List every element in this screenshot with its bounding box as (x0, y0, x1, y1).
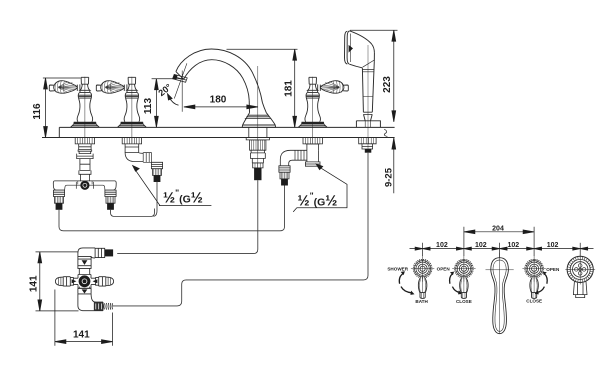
svg-text:9-25: 9-25 (383, 167, 394, 187)
svg-text:180: 180 (210, 95, 227, 106)
svg-text:102: 102 (507, 242, 519, 249)
svg-text:116: 116 (32, 103, 43, 120)
svg-text:181: 181 (284, 80, 295, 97)
svg-text:OPEN: OPEN (546, 267, 560, 272)
svg-text:141: 141 (73, 330, 90, 341)
svg-text:113: 113 (143, 97, 154, 114)
svg-text:102: 102 (547, 242, 559, 249)
svg-text:OPEN: OPEN (437, 267, 451, 272)
svg-text:CLOSE: CLOSE (456, 299, 472, 304)
svg-text:102: 102 (436, 242, 448, 249)
svg-text:SHOWER: SHOWER (387, 266, 408, 271)
svg-text:CLOSE: CLOSE (526, 299, 542, 304)
svg-text:102: 102 (475, 242, 487, 249)
svg-text:141: 141 (28, 275, 39, 292)
svg-text:204: 204 (492, 225, 504, 232)
svg-text:BATH: BATH (415, 299, 428, 304)
svg-text:223: 223 (382, 76, 393, 93)
